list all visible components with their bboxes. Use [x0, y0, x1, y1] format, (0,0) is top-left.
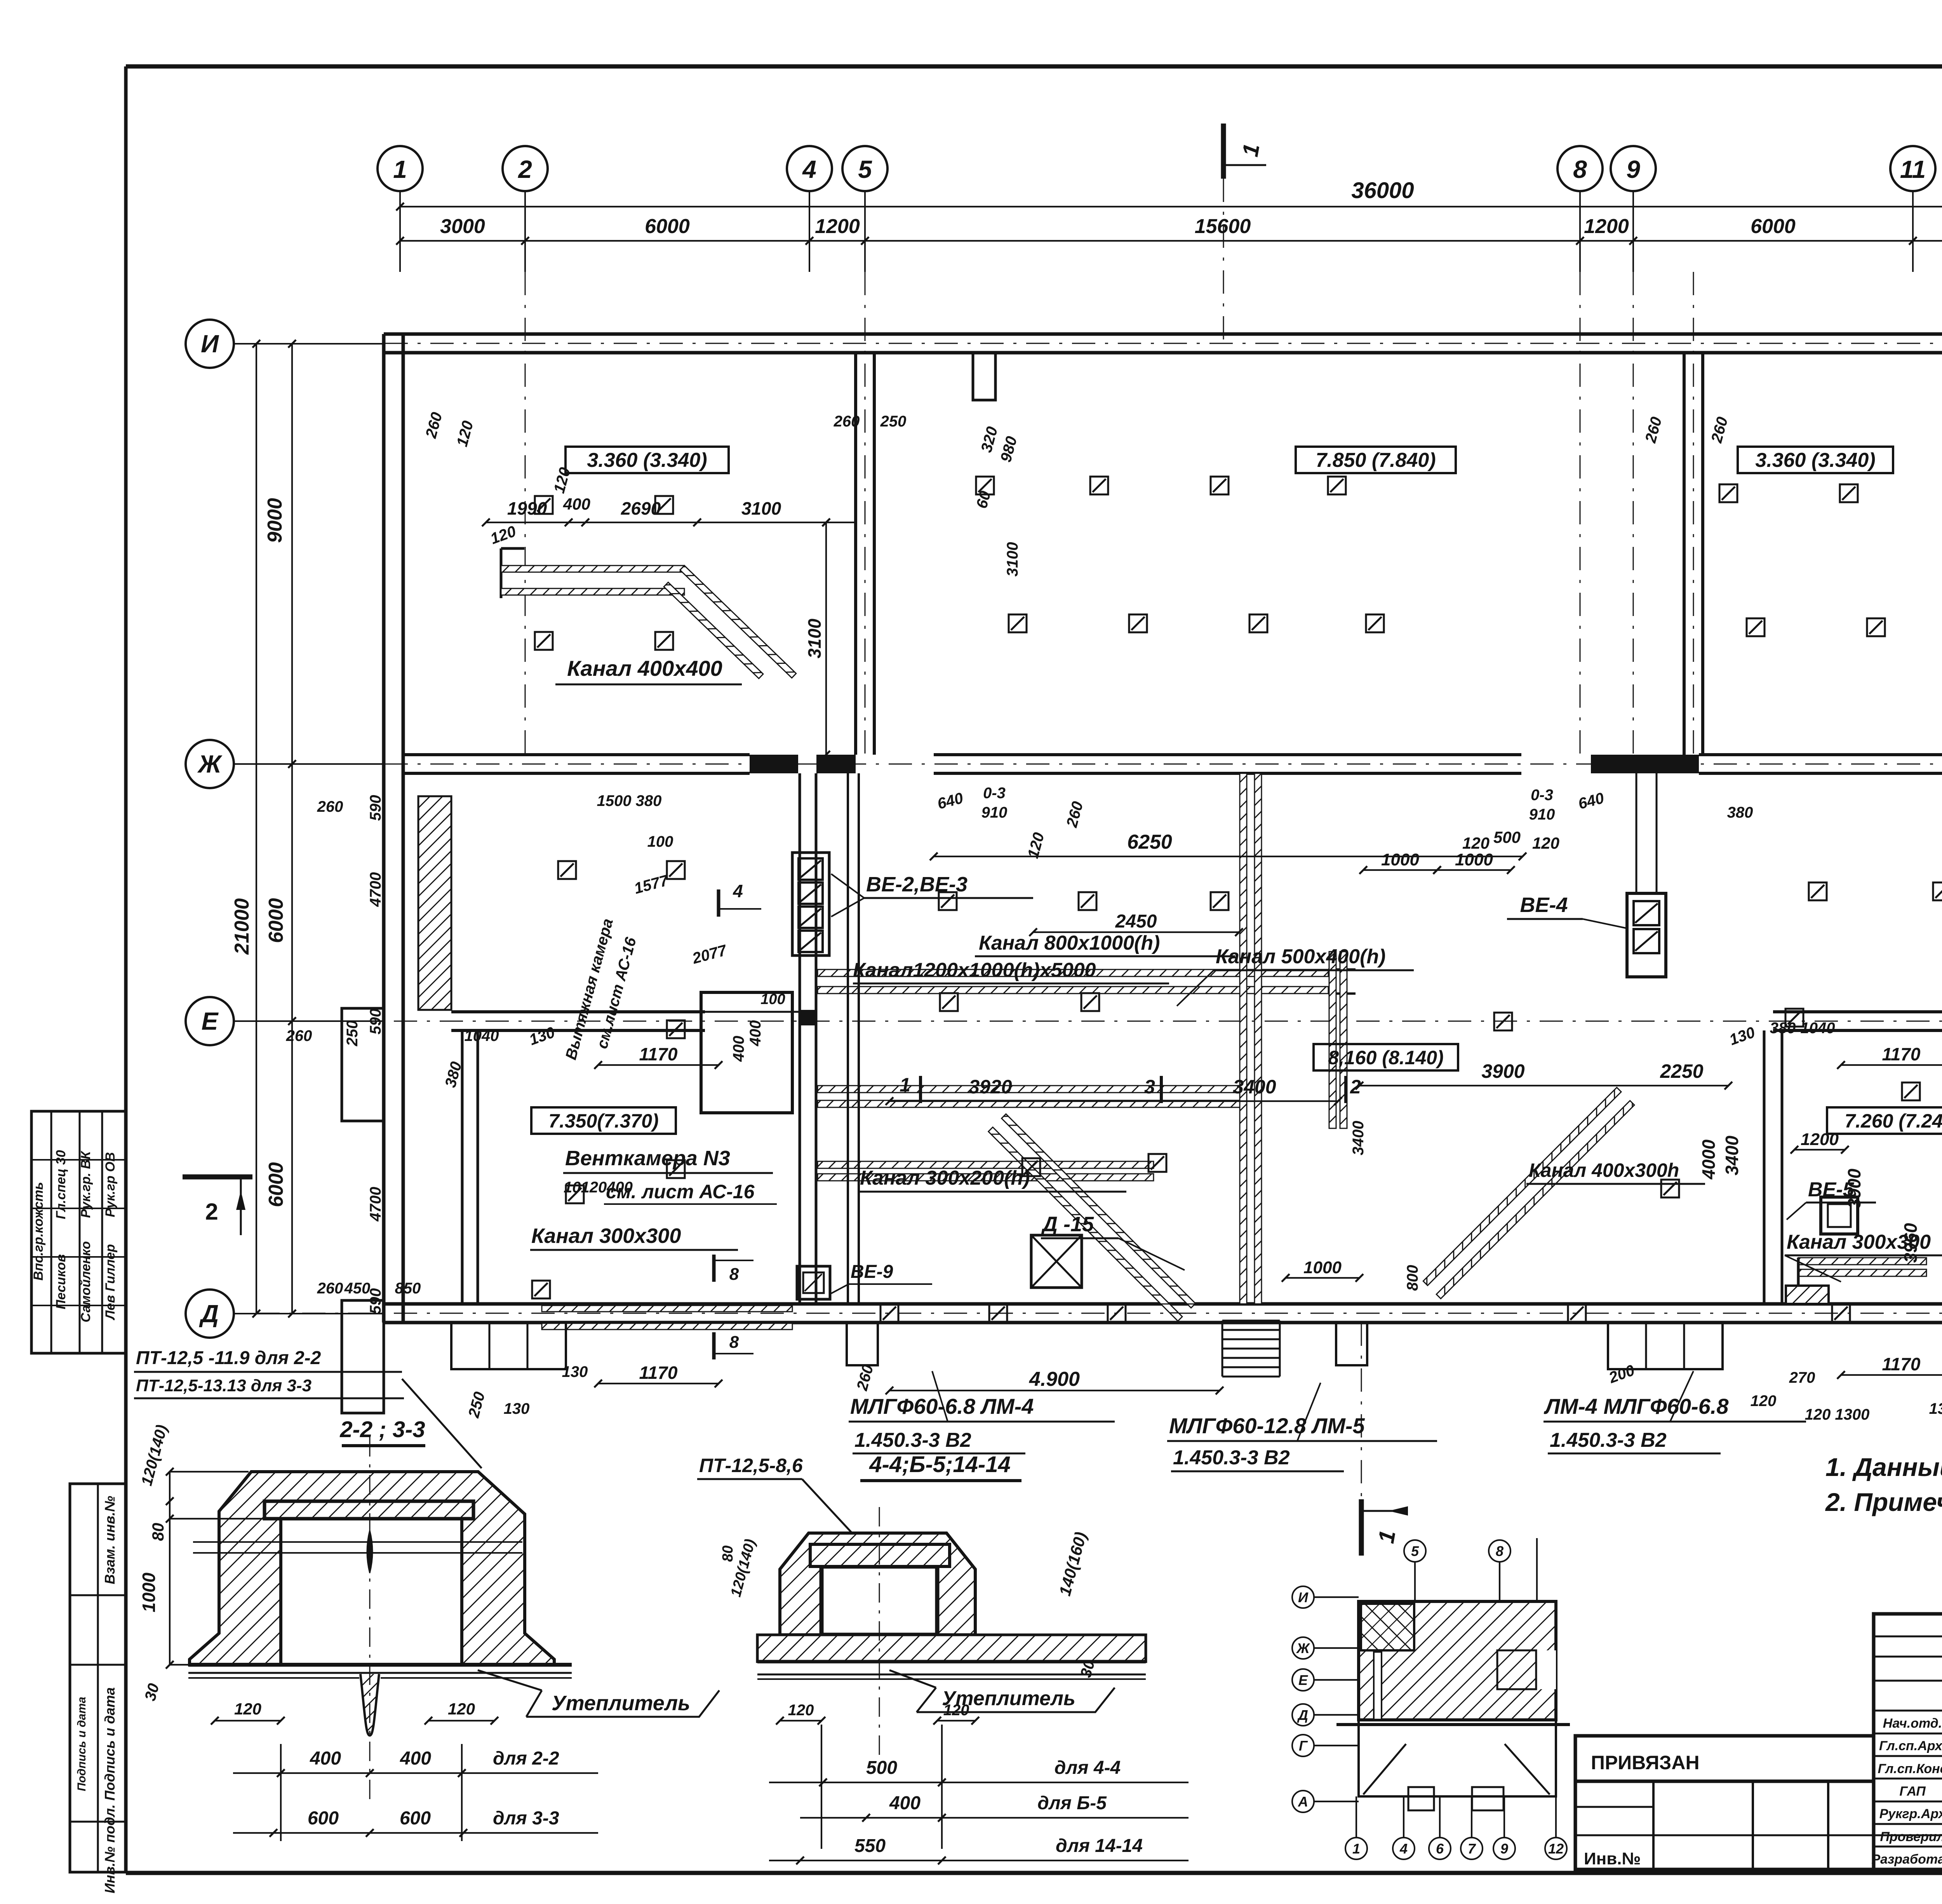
svg-text:2250: 2250 [1660, 1060, 1703, 1082]
key plan axis circles left [1292, 1586, 1359, 1812]
dim chain upper-left interior [482, 495, 856, 548]
outer wall top (axis И) [384, 334, 1942, 353]
outer wall left (axis 1) [384, 334, 403, 1323]
svg-text:Гл.спец 30: Гл.спец 30 [54, 1150, 68, 1219]
svg-text:270: 270 [1789, 1369, 1815, 1386]
svg-text:8: 8 [1496, 1543, 1503, 1559]
svg-text:1.450.3-3 В2: 1.450.3-3 В2 [854, 1429, 971, 1451]
dim 1000 pair center [1359, 850, 1515, 874]
label ВЕ-9 [831, 1262, 932, 1293]
svg-text:100: 100 [760, 991, 785, 1008]
svg-text:260: 260 [317, 798, 343, 815]
axis dash-dot lines through plan [256, 272, 1942, 1313]
svg-text:3000: 3000 [440, 215, 485, 238]
vent BE-5 box [1821, 1197, 1858, 1234]
porch left at Д [342, 1300, 384, 1413]
svg-text:8: 8 [729, 1265, 739, 1284]
svg-text:80: 80 [149, 1523, 167, 1541]
elevation box 7.260 [1827, 1107, 1942, 1134]
svg-text:590: 590 [367, 795, 384, 821]
section marker 2 left [183, 1177, 252, 1235]
label Канал 300x300 left [530, 1224, 738, 1250]
svg-text:6000: 6000 [265, 1162, 287, 1207]
svg-text:260: 260 [286, 1027, 312, 1044]
svg-text:3960: 3960 [1900, 1223, 1921, 1263]
svg-text:400: 400 [310, 1748, 341, 1769]
wall axis Е right segment [1773, 1012, 1942, 1030]
svg-text:Ж: Ж [197, 750, 223, 778]
svg-text:ПТ-12,5 -11.9 для 2-2: ПТ-12,5 -11.9 для 2-2 [136, 1348, 321, 1368]
key plan lower part [1336, 1720, 1570, 1810]
key plan hatched block [1359, 1601, 1556, 1720]
svg-text:ПРИВЯЗАН: ПРИВЯЗАН [1591, 1752, 1700, 1773]
svg-text:250: 250 [344, 1020, 361, 1047]
svg-text:1000: 1000 [1381, 850, 1419, 869]
svg-text:1170: 1170 [1882, 1354, 1921, 1374]
svg-text:Г: Г [1299, 1738, 1308, 1754]
svg-text:Е: Е [1298, 1672, 1308, 1688]
label ПТ-12,5-8,6 bottom [697, 1455, 886, 1569]
svg-text:15600: 15600 [1195, 215, 1251, 238]
svg-text:Гл.сп.Конс: Гл.сп.Конс [1878, 1761, 1942, 1776]
svg-text:Впс.гр.кожсть: Впс.гр.кожсть [31, 1182, 46, 1281]
svg-text:250: 250 [880, 413, 907, 430]
top dimension line 36000 [396, 178, 1942, 211]
svg-text:Нач.отд.: Нач.отд. [1883, 1716, 1942, 1731]
svg-text:5: 5 [858, 155, 872, 183]
svg-text:3.360 (3.340): 3.360 (3.340) [587, 449, 707, 472]
left dimension segments 9000/6000/6000 [264, 340, 296, 1317]
svg-text:8: 8 [729, 1333, 739, 1352]
elevation box 3.360 right [1738, 447, 1893, 473]
left dimension line 21000 [231, 340, 260, 1317]
svg-text:1000: 1000 [1303, 1258, 1342, 1277]
svg-text:ПТ-12,5-8,6: ПТ-12,5-8,6 [699, 1455, 803, 1476]
elevation box 7.850 [1296, 447, 1456, 473]
svg-text:2. Примечания см. лист АС-10: 2. Примечания см. лист АС-10 [1825, 1488, 1942, 1516]
label ВЕ-5 [1787, 1178, 1876, 1220]
small dims scatter [286, 411, 1942, 1428]
damper Д-15 box [1031, 1235, 1082, 1288]
svg-text:550: 550 [854, 1836, 886, 1856]
duct channel 300x200 horizontal [818, 1161, 1154, 1181]
svg-text:120: 120 [1532, 834, 1559, 852]
porch slab bottom left [451, 1323, 566, 1369]
room wall x4565 [1764, 1030, 1782, 1304]
label Канал 300x200 [858, 1167, 1126, 1192]
svg-text:Канал 500х400(h): Канал 500х400(h) [1216, 945, 1385, 968]
svg-text:Д: Д [199, 1300, 219, 1328]
label Канал 1200x1000 [853, 959, 1169, 983]
svg-text:600: 600 [400, 1808, 431, 1829]
svg-text:130: 130 [504, 1400, 530, 1417]
svg-text:3100: 3100 [1004, 542, 1021, 577]
svg-text:3400: 3400 [1722, 1135, 1742, 1175]
svg-text:Подпись и дата: Подпись и дата [75, 1697, 88, 1791]
svg-text:1000: 1000 [139, 1572, 159, 1612]
label Канал 500x400 [1177, 945, 1414, 1006]
row grid circles left [186, 320, 385, 1338]
svg-text:1: 1 [1352, 1841, 1360, 1857]
wall stub on axis И [973, 353, 995, 400]
key plan circles top 5 8 [1404, 1538, 1537, 1601]
label Утеплитель bottom 4-4 [889, 1670, 1115, 1712]
svg-text:7: 7 [1468, 1841, 1476, 1857]
stairs hatch bottom center [1222, 1321, 1280, 1377]
svg-text:11: 11 [1900, 155, 1926, 183]
svg-text:400: 400 [747, 1020, 764, 1047]
svg-text:0-3: 0-3 [983, 785, 1006, 802]
section marker 1 top [1223, 124, 1266, 179]
svg-text:6000: 6000 [265, 898, 287, 943]
svg-text:12: 12 [1548, 1841, 1564, 1857]
leader lines to МЛГФ labels [932, 1371, 1693, 1441]
svg-text:80: 80 [720, 1545, 736, 1562]
svg-text:3400: 3400 [1233, 1076, 1276, 1098]
svg-text:120: 120 [788, 1702, 814, 1719]
svg-text:120: 120 [234, 1700, 261, 1718]
svg-text:4: 4 [733, 881, 743, 901]
svg-text:36000: 36000 [1351, 178, 1414, 203]
svg-text:Рукгр.Арх: Рукгр.Арх [1879, 1807, 1942, 1821]
svg-text:1170: 1170 [1882, 1044, 1921, 1064]
svg-text:380: 380 [1770, 1020, 1796, 1037]
dim 2450 [1029, 911, 1243, 936]
svg-text:Подпись и дата: Подпись и дата [102, 1687, 118, 1801]
dim 3900/2250 right [1356, 1060, 1732, 1089]
svg-text:8: 8 [1573, 155, 1587, 183]
label Вытяжная камера rotated [562, 917, 640, 1062]
svg-text:4: 4 [1399, 1841, 1408, 1857]
note line 2 [1825, 1488, 1942, 1516]
svg-text:4-4;Б-5;14-14: 4-4;Б-5;14-14 [869, 1452, 1010, 1477]
svg-text:21000: 21000 [231, 898, 253, 955]
duct along Д wall in vent room [542, 1305, 792, 1330]
label МЛГФ60-6.8 ЛМ-4 [849, 1394, 1115, 1453]
label Канал 400x400 [555, 656, 742, 684]
svg-text:Е: Е [202, 1007, 219, 1035]
svg-text:МЛГФ60-12.8 ЛМ-5: МЛГФ60-12.8 ЛМ-5 [1169, 1413, 1365, 1438]
svg-text:1200: 1200 [815, 215, 860, 238]
svg-text:1040: 1040 [465, 1027, 499, 1044]
label Канал 300x300 right [1785, 1231, 1942, 1282]
svg-text:1: 1 [393, 155, 407, 183]
section flag 4 [719, 881, 761, 917]
diagonal duct left [988, 1114, 1195, 1321]
svg-text:850: 850 [395, 1280, 421, 1297]
svg-text:3920: 3920 [969, 1076, 1012, 1098]
svg-text:9: 9 [1626, 155, 1640, 183]
svg-text:для 2-2: для 2-2 [493, 1748, 559, 1769]
svg-text:3100: 3100 [804, 618, 825, 658]
svg-text:2690: 2690 [621, 498, 661, 519]
svg-text:1200: 1200 [1584, 215, 1629, 238]
svg-text:910: 910 [1529, 806, 1555, 823]
svg-text:Гл.сп.Арх.: Гл.сп.Арх. [1879, 1739, 1942, 1753]
svg-text:500: 500 [1493, 828, 1521, 846]
svg-text:600: 600 [308, 1808, 339, 1829]
detail 2-2 dims [138, 1423, 598, 1841]
section marker 1 bottom [1361, 1499, 1408, 1556]
svg-text:Песиков: Песиков [54, 1254, 68, 1309]
vent chamber room walls [701, 991, 792, 1113]
svg-text:ПТ-12,5-13.13 для 3-3: ПТ-12,5-13.13 для 3-3 [136, 1376, 311, 1395]
svg-text:3100: 3100 [741, 498, 781, 519]
svg-text:А: А [1298, 1794, 1308, 1810]
dim 4.900 [886, 1368, 1223, 1394]
hatched shaft near left wall [418, 796, 451, 1010]
svg-text:120: 120 [943, 1702, 969, 1719]
svg-text:МЛГФ60-6.8 ЛМ-4: МЛГФ60-6.8 ЛМ-4 [850, 1394, 1034, 1418]
dim 3100 vertical [804, 519, 830, 759]
svg-text:10120400: 10120400 [564, 1179, 633, 1196]
svg-text:4000: 4000 [1698, 1139, 1719, 1180]
svg-text:0-3: 0-3 [1531, 787, 1553, 804]
title block привязан box [1575, 1736, 1942, 1869]
svg-text:2: 2 [205, 1199, 218, 1225]
svg-text:4.900: 4.900 [1029, 1368, 1080, 1391]
duct T right (Канал 300x300) [1786, 1258, 1926, 1304]
duct channel 1200x1000 horizontal [818, 1086, 1241, 1107]
svg-text:400: 400 [400, 1748, 431, 1769]
label МЛГФ60-12.8 ЛМ-5 [1167, 1413, 1437, 1471]
dim 1170 bottom right [1789, 1354, 1942, 1386]
elevation box 3.360 left [566, 447, 729, 473]
svg-text:ВЕ-4: ВЕ-4 [1520, 893, 1568, 917]
svg-text:1170: 1170 [639, 1044, 678, 1064]
svg-text:1990: 1990 [507, 498, 547, 519]
svg-text:Канал 300х200(h): Канал 300х200(h) [860, 1167, 1030, 1189]
svg-text:И: И [201, 330, 219, 358]
svg-text:1. Данный лист см. совместн: 1. Данный лист см. совместно с листами А… [1825, 1453, 1942, 1481]
svg-text:2450: 2450 [1115, 911, 1157, 932]
detail 4-4 dims [720, 1530, 1189, 1864]
svg-text:3: 3 [1144, 1076, 1155, 1098]
svg-text:380: 380 [1727, 804, 1753, 821]
svg-text:3900: 3900 [1481, 1060, 1524, 1082]
column grid circles top [378, 146, 1942, 272]
svg-text:1200: 1200 [1801, 1130, 1839, 1149]
svg-text:450: 450 [344, 1280, 371, 1297]
wall axis Е left segment [451, 1012, 800, 1030]
svg-text:Рук.гр ОВ: Рук.гр ОВ [103, 1152, 118, 1217]
svg-text:8,160 (8.140): 8,160 (8.140) [1328, 1047, 1443, 1069]
svg-text:100: 100 [647, 833, 673, 850]
bottom small ticks under left block [847, 1323, 1367, 1365]
roof marker squares grid [532, 477, 1942, 1322]
svg-text:Канал 300х300: Канал 300х300 [531, 1224, 681, 1248]
duct channel 400x400 upper-left [501, 548, 796, 695]
svg-text:ГАП: ГАП [1899, 1784, 1926, 1799]
svg-text:Взам. инв.№: Взам. инв.№ [102, 1496, 118, 1584]
porch left at Е [342, 1008, 384, 1121]
key plan axis circles bottom [1345, 1796, 1567, 1859]
svg-text:400: 400 [563, 495, 590, 513]
vent block BE-4 [1627, 773, 1666, 977]
svg-text:400: 400 [889, 1793, 921, 1813]
svg-text:260: 260 [317, 1280, 343, 1297]
svg-text:Канал 400х300h: Канал 400х300h [1529, 1159, 1679, 1181]
svg-text:1: 1 [900, 1074, 910, 1096]
svg-text:Самойленко: Самойленко [78, 1241, 93, 1322]
svg-text:Проверил: Проверил [1880, 1829, 1942, 1844]
svg-text:Д -15: Д -15 [1041, 1213, 1094, 1236]
label Д-15 [1041, 1213, 1185, 1270]
label Канал 400x300 right [1526, 1159, 1705, 1184]
svg-text:ВЕ-2,ВЕ-3: ВЕ-2,ВЕ-3 [866, 873, 968, 896]
svg-text:7.850 (7.840): 7.850 (7.840) [1316, 449, 1436, 472]
svg-text:9000: 9000 [264, 498, 286, 543]
dim line 3920/3400 with section flags [886, 1074, 1361, 1105]
room wall x2080 [800, 773, 816, 1304]
duct vertical x3445 [1329, 952, 1347, 1128]
section flags 8 [714, 1255, 753, 1359]
svg-text:для 3-3: для 3-3 [493, 1808, 559, 1829]
svg-text:6250: 6250 [1127, 831, 1172, 853]
svg-text:6000: 6000 [1751, 215, 1796, 238]
svg-text:для 14-14: для 14-14 [1056, 1836, 1143, 1856]
svg-text:3900: 3900 [1844, 1168, 1864, 1208]
title block stamp table [1871, 1614, 1942, 1869]
svg-text:800: 800 [1404, 1265, 1421, 1291]
svg-text:Канал 400х400: Канал 400х400 [567, 656, 722, 680]
svg-text:Инв.№: Инв.№ [1584, 1849, 1641, 1868]
label ВЕ-2,ВЕ-3 [831, 873, 1033, 917]
svg-text:Ж: Ж [1296, 1640, 1310, 1656]
svg-text:7.260 (7.240): 7.260 (7.240) [1845, 1110, 1942, 1132]
room wall x1210 [462, 1030, 478, 1304]
svg-text:Д: Д [1297, 1707, 1308, 1723]
svg-text:590: 590 [367, 1288, 384, 1314]
svg-text:для Б-5: для Б-5 [1037, 1793, 1107, 1813]
svg-text:4: 4 [802, 155, 816, 183]
svg-text:400: 400 [730, 1036, 747, 1062]
vent stack BE-2 BE-3 [792, 853, 829, 1025]
svg-text:6: 6 [1436, 1841, 1444, 1857]
duct vertical x3220 [1240, 773, 1262, 1304]
svg-text:260: 260 [834, 413, 860, 430]
svg-text:Лев Гиллер: Лев Гиллер [103, 1244, 118, 1321]
second shaft wall x2195 [848, 773, 859, 1304]
dim 1170 under Е left [594, 1044, 722, 1069]
vent BE-9 box [797, 1266, 830, 1299]
svg-text:500: 500 [866, 1758, 897, 1778]
svg-text:120: 120 [1751, 1392, 1777, 1410]
svg-text:4700: 4700 [367, 872, 384, 907]
svg-text:120: 120 [448, 1700, 475, 1718]
dim 1170 bottom left [562, 1363, 722, 1387]
svg-text:Рук.гр. ВК: Рук.гр. ВК [78, 1150, 93, 1218]
svg-text:Канал1200х1000(h)х5000: Канал1200х1000(h)х5000 [853, 959, 1096, 982]
svg-text:И: И [1298, 1589, 1309, 1605]
top dimension line segments [396, 215, 1942, 245]
svg-text:1000: 1000 [1455, 850, 1493, 869]
label Канал 800x1000 [975, 932, 1235, 956]
outer wall bottom (axis Д) [384, 1304, 1942, 1323]
internal wall axis 8-9 [1684, 353, 1703, 755]
svg-text:Канал 800х1000(h): Канал 800х1000(h) [979, 932, 1160, 954]
note line 1 [1825, 1453, 1942, 1481]
label Венткамера N3 [563, 1147, 777, 1204]
internal wall axis Ж [403, 755, 1942, 773]
svg-text:136: 136 [1929, 1400, 1942, 1417]
svg-text:120 1300: 120 1300 [1805, 1406, 1870, 1423]
svg-text:3.360 (3.340): 3.360 (3.340) [1755, 449, 1875, 472]
svg-text:1.450.3-3 В2: 1.450.3-3 В2 [1173, 1446, 1290, 1469]
svg-text:2: 2 [518, 155, 532, 183]
svg-text:7.350(7.370): 7.350(7.370) [548, 1110, 659, 1132]
label Утеплитель bottom [478, 1670, 719, 1717]
svg-text:590: 590 [367, 1009, 384, 1035]
left margin stamp lower [70, 1484, 126, 1894]
svg-text:120: 120 [1462, 834, 1490, 852]
svg-text:130: 130 [562, 1363, 588, 1380]
svg-text:для 4-4: для 4-4 [1055, 1758, 1121, 1778]
left margin stamp upper [31, 1111, 126, 1353]
detail 4-4 title [860, 1452, 1021, 1481]
section cut line 1-1 [1223, 179, 1361, 1499]
rotated dims near axis5 top [973, 425, 1020, 510]
svg-text:Инв.№ подл.: Инв.№ подл. [102, 1804, 118, 1893]
svg-text:1.450.3-3 В2: 1.450.3-3 В2 [1550, 1429, 1667, 1451]
svg-text:Утеплитель: Утеплитель [552, 1692, 690, 1715]
svg-text:Венткамера N3: Венткамера N3 [565, 1147, 730, 1170]
svg-text:1500 380: 1500 380 [597, 792, 662, 809]
svg-text:3400: 3400 [1350, 1121, 1367, 1156]
detail 2-2 section body [188, 1437, 572, 1802]
svg-text:Разработал: Разработал [1871, 1852, 1942, 1867]
dim 1170 right [1837, 1044, 1942, 1069]
svg-text:4700: 4700 [367, 1187, 384, 1222]
svg-text:6000: 6000 [645, 215, 690, 238]
labels ПТ-12,5 left [134, 1348, 482, 1468]
svg-text:910: 910 [981, 804, 1008, 821]
label ВЕ-4 [1507, 893, 1627, 928]
svg-text:ВЕ-9: ВЕ-9 [851, 1262, 893, 1282]
label ЛМ-4 МЛГФ60-6.8 right [1544, 1394, 1806, 1453]
detail 2-2;3-3 title [339, 1417, 425, 1446]
dim 1000 lower center [1282, 1258, 1363, 1282]
elevation box 7.350 [531, 1107, 676, 1134]
dim 6250 [930, 828, 1559, 860]
svg-text:ЛМ-4 МЛГФ60-6.8: ЛМ-4 МЛГФ60-6.8 [1544, 1394, 1729, 1418]
elevation box 8,160 [1314, 1044, 1458, 1070]
rotated dims right block [1698, 1135, 1921, 1263]
internal wall axis 5 [856, 353, 874, 755]
svg-text:1040: 1040 [1801, 1020, 1835, 1037]
svg-text:1170: 1170 [639, 1363, 678, 1383]
porch slab bottom right [1608, 1323, 1723, 1369]
duct channel 800x1000 horizontal [818, 969, 1356, 994]
dim 1200 right room [1791, 1130, 1849, 1154]
detail 4-4 section body [757, 1507, 1146, 1771]
svg-text:2-2 ; 3-3: 2-2 ; 3-3 [339, 1417, 425, 1442]
svg-text:9: 9 [1500, 1841, 1508, 1857]
diagonal duct right [1423, 1088, 1634, 1299]
svg-text:5: 5 [1411, 1543, 1419, 1559]
